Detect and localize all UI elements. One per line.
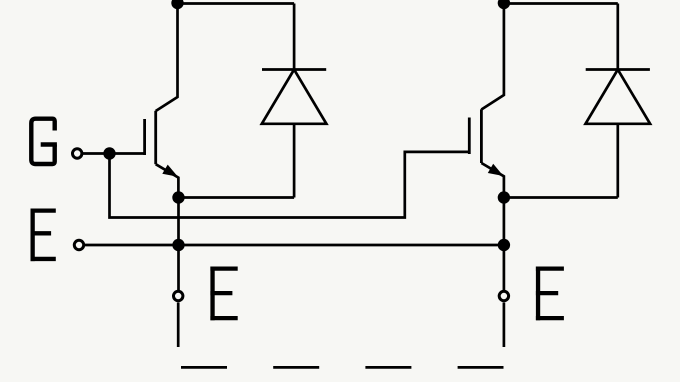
diode D2 triangle	[586, 70, 651, 124]
wire: emitter bus E	[84, 244, 504, 247]
diode D1 triangle	[262, 70, 327, 124]
wire: collector lead Q1	[156, 0, 178, 111]
diode D1 anode lead	[293, 124, 296, 198]
terminal E1 (open circle)	[174, 291, 183, 300]
wire: gate bus from G junction to Q2	[110, 152, 470, 218]
transistor Q1 emitter lead	[156, 164, 179, 197]
label E2	[536, 267, 564, 321]
label G	[31, 119, 57, 164]
transistor Q2 body bar	[480, 109, 483, 163]
transistor Q2 gate bar	[468, 118, 471, 155]
terminal G (open circle)	[73, 149, 82, 158]
transistor Q2 emitter arrow	[488, 164, 504, 176]
node: emitter bus junction right	[498, 239, 510, 251]
wire: top bus right cell to diode D2	[504, 2, 618, 5]
wire: gate lead G to Q1	[82, 152, 145, 155]
node: emitter junction Q2	[498, 191, 510, 203]
node: emitter bus junction left	[172, 239, 184, 251]
diode D1 cathode lead	[293, 4, 296, 70]
wire: Q2 emitter down to terminal	[503, 198, 506, 291]
diode D1 cathode bar	[262, 68, 326, 71]
terminal E2 (open circle)	[499, 291, 508, 300]
wire: stub below terminal E1	[177, 303, 180, 348]
node: emitter junction Q1	[172, 191, 184, 203]
wire: collector lead Q2	[481, 0, 504, 110]
transistor Q2 emitter lead	[481, 163, 504, 198]
transistor Q1 gate bar	[143, 119, 146, 155]
wire: emitter to diode D2 anode	[504, 196, 618, 199]
node: gate junction	[103, 147, 115, 159]
wire: dashed continuation bus	[181, 366, 504, 369]
terminal E (open circle, left)	[74, 240, 83, 249]
node: collector junction right	[498, 0, 510, 9]
wire: emitter to diode D1 anode	[179, 196, 295, 199]
wire: top bus left cell to diode D1	[178, 2, 295, 5]
diode D2 cathode lead	[616, 4, 619, 70]
wire: Q1 emitter down to terminal	[177, 198, 180, 291]
diode D2 cathode bar	[586, 68, 650, 71]
node: collector junction left	[171, 0, 183, 9]
transistor Q1 emitter arrow	[162, 165, 178, 177]
transistor Q1 body bar	[154, 111, 157, 164]
label E main	[31, 209, 56, 262]
label E1	[210, 267, 237, 321]
wire: stub below terminal E2	[503, 303, 506, 348]
diode D2 anode lead	[616, 124, 619, 198]
